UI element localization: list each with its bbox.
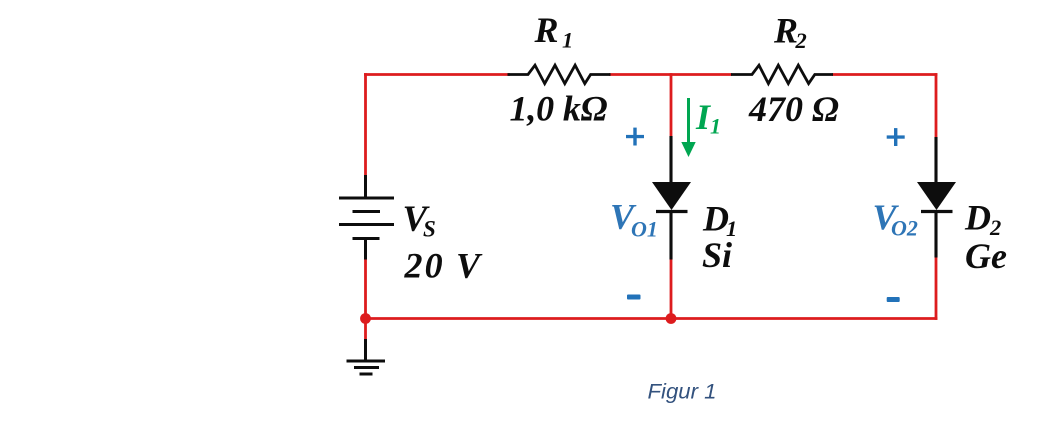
node label VO2 [873,197,918,241]
battery Vs label [403,199,436,242]
resistor R2 label [773,11,807,54]
node junction middle [666,313,677,324]
svg-text:S: S [423,217,436,242]
minus sign VO1 [627,295,641,300]
svg-text:D: D [964,198,991,238]
resistor R1 label [534,10,574,53]
diode D1 [652,136,691,260]
node junction left [360,313,371,324]
minus sign VO2 [887,297,900,302]
node label VO1 [610,197,658,242]
wire middle vertical upper [670,73,673,137]
plus sign VO2 [887,128,905,146]
wire left vertical lower [364,258,367,320]
wire top-right segment [832,73,937,76]
svg-text:20 V: 20 V [404,246,483,286]
wire bottom segment [364,317,937,320]
plus sign VO1 [626,128,644,146]
svg-text:2: 2 [795,28,807,53]
svg-text:470 Ω: 470 Ω [748,89,839,129]
wire top-middle segment [609,73,732,76]
diode D2 [917,137,956,258]
ground [347,339,386,374]
diode D2 label [964,198,1001,241]
wire right vertical upper [935,73,938,138]
resistor R2 [731,65,833,83]
svg-text:Figur 1: Figur 1 [648,381,717,404]
svg-text:Ge: Ge [965,236,1007,276]
svg-text:O1: O1 [631,217,658,242]
svg-text:O2: O2 [891,216,918,241]
diode D1 label [702,199,737,242]
current I1 label [695,97,721,139]
wire top-left segment [364,73,510,76]
svg-text:Si: Si [702,235,732,275]
svg-text:1: 1 [710,114,721,139]
wire ground stem red [364,319,367,341]
current arrow I1 [681,98,695,157]
svg-text:1: 1 [562,28,573,53]
svg-text:D: D [702,199,729,239]
wire middle vertical lower [670,258,673,319]
wire left vertical upper [364,73,367,176]
svg-text:R: R [773,11,798,51]
wire right vertical lower [935,257,938,320]
resistor R1 [508,65,611,83]
svg-text:R: R [534,10,559,50]
battery Vs [339,175,394,260]
svg-text:1,0 kΩ: 1,0 kΩ [510,89,608,129]
